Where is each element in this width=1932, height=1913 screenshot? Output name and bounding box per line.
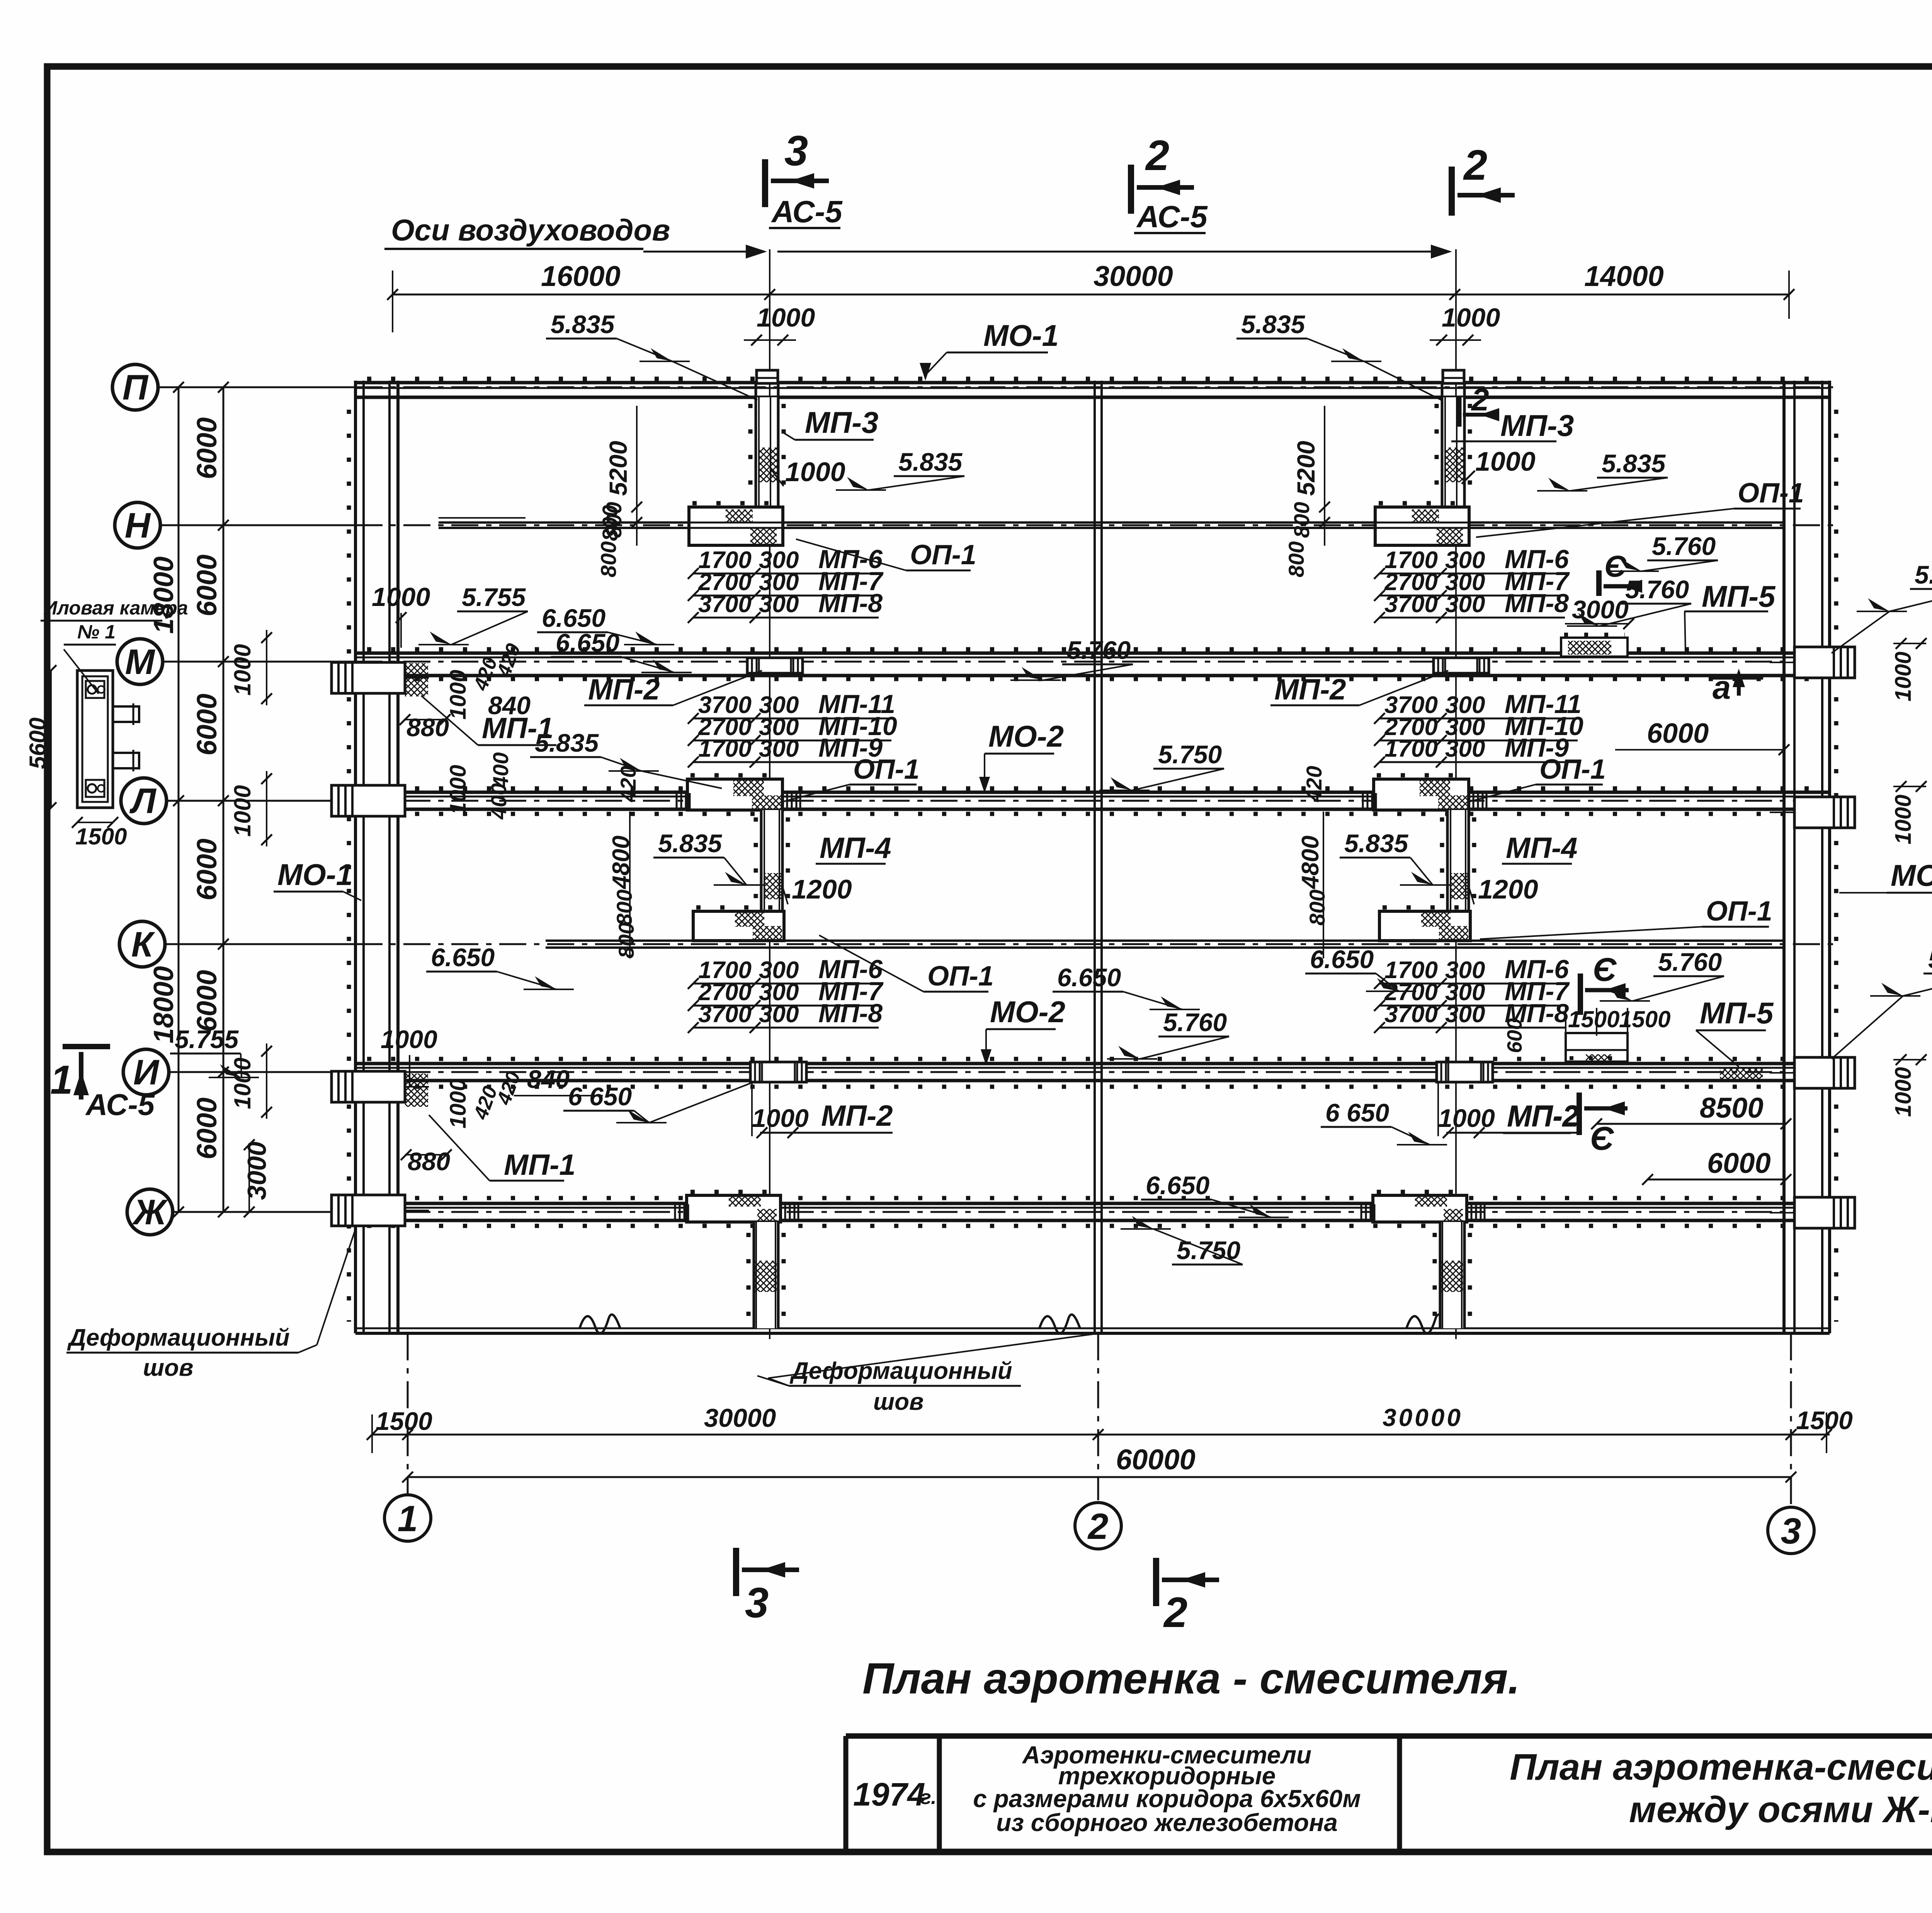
air duct axis line [1455,249,1457,1339]
svg-text:1000: 1000 [372,582,430,612]
svg-text:800: 800 [598,505,622,541]
wall band on axis П (МО-1 top wall) [355,381,1830,385]
svg-text:1000: 1000 [1475,446,1536,477]
air duct walls below П [756,397,778,507]
flange on И band [1437,1062,1493,1082]
svg-text:МП-2: МП-2 [588,673,660,706]
svg-text:Н: Н [125,506,151,545]
svg-text:1000: 1000 [752,1104,809,1132]
svg-text:6000: 6000 [192,970,223,1032]
svg-text:1500: 1500 [1796,1406,1853,1435]
svg-text:800: 800 [1289,502,1314,538]
svg-text:МО-1: МО-1 [1891,858,1932,892]
svg-text:И: И [133,1053,160,1092]
МП-4 duct below Л [1447,810,1469,911]
svg-text:300: 300 [1445,591,1485,618]
svg-text:1974: 1974 [853,1776,925,1813]
svg-text:5.755: 5.755 [175,1025,239,1054]
svg-text:МО-1: МО-1 [983,318,1059,352]
section mark а inside on М band [1713,675,1763,680]
svg-text:1000: 1000 [1891,652,1916,701]
svg-text:1500: 1500 [376,1407,432,1435]
svg-text:шов: шов [143,1355,193,1381]
axis line П [158,386,355,388]
runner beam on axis Н [439,521,1784,524]
axis line К [165,943,355,945]
svg-text:1000: 1000 [757,303,815,332]
svg-text:6000: 6000 [1707,1147,1771,1179]
svg-text:5.835: 5.835 [1241,310,1305,339]
svg-text:АС-5: АС-5 [1136,199,1208,234]
svg-text:МП-4: МП-4 [820,832,891,865]
air duct cap above П wall [757,370,778,383]
svg-text:1000: 1000 [381,1025,437,1054]
pipe stub in right wall at row Л [1794,797,1855,828]
svg-text:МП-2: МП-2 [1274,673,1346,706]
svg-text:5.650: 5.650 [1915,560,1932,589]
svg-text:ОП-1: ОП-1 [927,961,994,992]
svg-text:3: 3 [745,1579,769,1627]
flange on Ж band right of slab [1471,1204,1473,1220]
svg-text:300: 300 [759,591,799,618]
axis line of joint (to circle 2) [1097,1333,1099,1500]
svg-text:6000: 6000 [192,417,223,479]
top dimension line 16000/30000/14000 [393,294,1789,296]
wall band on axis Ж [355,1202,1830,1205]
svg-text:г.: г. [920,1786,937,1809]
wall band on axis И [355,1062,1830,1065]
svg-text:3: 3 [1781,1511,1801,1552]
МП-4 duct hatch [1450,873,1469,899]
svg-text:План аэротенка - смесителя.: План аэротенка - смесителя. [862,1654,1520,1703]
svg-text:5.760: 5.760 [1658,948,1722,976]
svg-text:Є: Є [1593,951,1617,988]
svg-text:6000: 6000 [192,839,223,900]
svg-text:800: 800 [612,890,636,926]
section mark 2/АС-5 top [1128,165,1134,214]
svg-text:5.835: 5.835 [898,448,963,476]
axis line М [163,661,355,663]
break symbol on bottom edge 2 [1039,1314,1080,1333]
svg-text:5.760: 5.760 [1163,1008,1227,1036]
air duct hatch block [1444,448,1464,482]
svg-text:К: К [131,925,155,964]
svg-text:ОП-1: ОП-1 [910,540,976,570]
svg-text:3000: 3000 [242,1142,272,1200]
section mark б И row upper [1578,974,1583,1015]
svg-text:МП-8: МП-8 [818,999,883,1028]
МП-2 flange on wall М [1434,658,1489,673]
sludge chamber dim 1500 [77,822,113,823]
section mark 2 inside plan at right duct [1457,397,1462,427]
svg-text:ОП-1: ОП-1 [1706,896,1772,927]
svg-text:5.760: 5.760 [1652,532,1716,560]
flange on Л right of slab [786,793,788,809]
right outer wall [1821,381,1823,1333]
svg-text:6.650: 6.650 [431,943,495,972]
svg-text:4800: 4800 [1297,836,1324,890]
axis circle К [119,921,165,967]
svg-text:6.650: 6.650 [1146,1171,1209,1200]
svg-text:а: а [1713,669,1731,706]
air duct dots [748,404,753,502]
air duct hatch block [758,448,778,482]
svg-text:План аэротенка-смесителя: План аэротенка-смесителя [1510,1746,1932,1788]
svg-text:АС-5: АС-5 [85,1088,155,1122]
svg-text:6.650: 6.650 [1057,963,1121,992]
svg-text:2: 2 [1463,141,1487,189]
svg-text:60000: 60000 [1116,1443,1196,1476]
break symbol on bottom edge 1 [580,1314,620,1333]
svg-text:5.755: 5.755 [462,583,526,611]
axis line И [169,1071,355,1073]
axis circle Л [121,778,167,824]
МП-4 duct below Л [761,810,782,911]
bottom axis circle 2 [1075,1503,1121,1549]
axis circle П [112,364,158,410]
svg-text:300: 300 [759,1001,799,1028]
bottom section mark 3 [733,1548,739,1596]
runner beam on axis К [546,939,1784,942]
svg-text:3700: 3700 [1384,1001,1438,1028]
small slab row М right [1561,638,1628,657]
svg-text:МП-8: МП-8 [1505,589,1569,618]
svg-text:1: 1 [398,1498,418,1539]
bottom dim line 60000 [408,1476,1791,1478]
svg-text:МП-2: МП-2 [1507,1100,1579,1133]
flange on Л left of slab [1362,793,1364,809]
bottom dim line 1500/30000/30000/1500 [372,1434,1830,1436]
svg-text:2: 2 [1471,382,1489,417]
svg-text:30000: 30000 [1383,1404,1463,1431]
flange on Ж band right of slab [784,1204,786,1220]
svg-text:МП-2: МП-2 [821,1099,893,1132]
dim chain 5200/800 left of left duct [636,406,638,546]
svg-text:6 650: 6 650 [1325,1098,1389,1127]
pipe stub in right wall at row Ж [1794,1197,1855,1228]
ОП-1 slab above Л [687,779,782,810]
svg-text:Л: Л [129,781,156,821]
svg-text:6.650: 6.650 [542,604,605,632]
svg-text:3: 3 [784,127,808,175]
svg-text:П: П [122,368,149,407]
svg-text:6.650: 6.650 [556,628,619,657]
flange on Ж band left of slab [674,1204,676,1220]
svg-text:6000: 6000 [192,694,223,756]
break symbol on bottom edge 3 [1406,1314,1447,1333]
sludge chamber ports [86,681,104,698]
small slab И row right (1500 1500) [1566,1033,1628,1062]
МП-2 flange on wall М [747,658,803,673]
left dim chain 18000 line [178,387,180,1212]
hatch in duct below Ж [755,1261,777,1292]
svg-text:Иловая камера: Иловая камера [43,597,188,619]
ОП-1 slab on axis Н [1375,507,1469,545]
section mark 3/АС-5 top [762,159,768,207]
axis circle М [117,639,163,684]
svg-text:840: 840 [527,1065,570,1093]
svg-text:1200: 1200 [792,874,852,904]
svg-text:840: 840 [488,691,531,720]
svg-text:5.835: 5.835 [658,829,722,858]
svg-text:1000: 1000 [446,670,471,720]
svg-text:14000: 14000 [1584,260,1664,292]
svg-text:МП-8: МП-8 [818,589,883,618]
bottom axis circle 3 [1768,1507,1814,1554]
svg-text:из сборного железобетона: из сборного железобетона [996,1809,1338,1836]
dim chain 4800 right column [1323,812,1324,958]
flange on Ж band left of slab [1361,1204,1362,1220]
runner bar Н left continuation [439,517,526,519]
svg-text:6000: 6000 [1647,718,1709,749]
wall band on axis М [355,652,1830,655]
svg-text:1700: 1700 [698,735,752,762]
svg-text:420: 420 [1302,766,1326,802]
svg-text:2: 2 [1163,1589,1187,1636]
section mark 1/АС-5 left [63,1044,110,1049]
sludge chamber dim 5600 [50,671,52,808]
svg-text:1000: 1000 [446,765,471,815]
axis line Ж [173,1211,355,1213]
svg-text:Ж: Ж [132,1193,168,1232]
svg-text:5.760: 5.760 [1067,636,1131,664]
svg-text:между осями Ж-П: между осями Ж-П [1629,1789,1932,1830]
svg-text:6.650: 6.650 [1310,945,1374,974]
svg-text:МП-1: МП-1 [504,1149,576,1181]
svg-text:1000: 1000 [1891,1067,1916,1117]
flange on Л right of slab [1473,793,1475,809]
duct below Ж [754,1222,778,1328]
svg-text:16000: 16000 [541,260,621,292]
svg-text:1000: 1000 [230,1058,255,1109]
svg-text:МП-3: МП-3 [1500,408,1574,443]
svg-text:1000: 1000 [785,457,845,487]
bottom axis circle 1 [384,1495,431,1541]
svg-text:Деформационный: Деформационный [67,1324,290,1351]
svg-text:800: 800 [1305,890,1329,926]
svg-text:№ 1: № 1 [77,621,116,643]
svg-text:5.835: 5.835 [551,310,615,339]
ОП-1 slab on axis Н [689,507,783,545]
ОП-1 slab above К [1379,911,1470,941]
tank bottom edge [355,1328,1830,1329]
svg-text:1000: 1000 [446,1079,471,1128]
pipe stub in left wall at row М [332,662,405,693]
dim chain 4800/800/420 left column [629,812,631,958]
pipe stub in right wall at row И [1794,1057,1855,1088]
svg-text:400: 400 [488,752,513,789]
svg-text:300: 300 [759,735,799,762]
svg-text:ОП-1: ОП-1 [853,754,920,785]
pipe stub in left wall at row И [332,1071,405,1102]
svg-text:300: 300 [1445,1001,1485,1028]
svg-text:1: 1 [50,1057,73,1103]
axis circle Ж [127,1189,173,1235]
svg-text:МП-5: МП-5 [1700,996,1774,1030]
svg-text:1200: 1200 [1478,874,1538,904]
svg-text:5200: 5200 [1292,441,1320,496]
svg-text:5.835: 5.835 [1602,449,1666,478]
svg-text:ОП-1: ОП-1 [1738,478,1804,509]
svg-text:300: 300 [1445,735,1485,762]
svg-text:800: 800 [1284,541,1308,577]
svg-text:6000: 6000 [192,1098,223,1159]
axis line Л [167,800,355,802]
svg-text:3700: 3700 [1384,591,1438,618]
section mark б И row lower [1577,1093,1582,1135]
pipe stub in left wall at row Л [332,785,405,816]
svg-text:5600: 5600 [25,718,51,769]
svg-text:3700: 3700 [698,1001,752,1028]
bottom axes verticals [407,1333,409,1494]
ОП-1 slab above К [693,911,784,941]
svg-text:2: 2 [1087,1506,1109,1547]
flange on Л left of slab [676,793,678,809]
svg-text:6 650: 6 650 [568,1082,632,1111]
wall band on axis Л [355,791,1830,794]
svg-text:800: 800 [614,922,638,958]
axis circle И [123,1049,169,1095]
right wall dots [1834,410,1838,1322]
svg-text:1500: 1500 [75,824,127,849]
svg-text:2: 2 [1145,132,1169,179]
air duct walls below П [1442,397,1464,507]
left outer wall [354,381,357,1333]
svg-text:МП-5: МП-5 [1702,579,1776,613]
hatch on И band right [1720,1068,1763,1081]
duct axes arrow line [643,251,762,253]
air duct axis line [769,249,770,1339]
pipe stub in left wall at row Ж [332,1195,405,1226]
svg-text:4800: 4800 [608,836,634,890]
pipe stub in right wall at row М [1794,647,1855,678]
section mark б upper [1596,570,1602,596]
hatch in duct below Ж [1441,1261,1463,1292]
flange on И band [750,1062,806,1082]
ОП-1 slab above Л [1374,779,1469,810]
svg-text:1700: 1700 [1384,735,1438,762]
Ж slab at duct [687,1195,781,1222]
svg-text:1000: 1000 [230,644,255,696]
title block outline [846,1733,1932,1739]
svg-text:30000: 30000 [1094,260,1173,292]
axis circle Н [115,502,160,548]
svg-text:5.835: 5.835 [1344,829,1408,858]
svg-text:1000: 1000 [230,785,255,837]
svg-text:МП-3: МП-3 [805,405,878,439]
left wall dots [347,410,351,1322]
hatch block inside left wall row М [405,663,428,696]
left inner wall [388,381,391,1333]
svg-text:880: 880 [408,1147,450,1176]
svg-text:3700: 3700 [698,591,752,618]
svg-text:Оси воздуховодов: Оси воздуховодов [391,213,670,247]
svg-text:5.650: 5.650 [1928,945,1932,974]
sludge chamber detail outer [77,671,113,808]
svg-text:18000: 18000 [148,557,179,634]
svg-text:1000: 1000 [1438,1104,1495,1132]
МП-4 duct hatch [764,873,782,899]
svg-text:5200: 5200 [604,441,632,496]
svg-text:880: 880 [406,713,449,742]
svg-text:МО-2: МО-2 [990,995,1065,1029]
right inner wall [1782,381,1786,1333]
dim chain 5200/800 right column [1324,406,1325,546]
sludge chamber pipes [113,706,139,722]
svg-text:МО-2: МО-2 [988,719,1064,753]
air duct dots [1435,404,1439,502]
svg-text:3000: 3000 [1572,595,1629,624]
middle deformation joint wall [1094,381,1096,1333]
axis line Н [160,524,355,526]
duct below Ж [1440,1222,1464,1328]
svg-text:6000: 6000 [192,555,223,616]
svg-text:1000: 1000 [1891,795,1916,844]
svg-text:800: 800 [596,541,621,577]
svg-text:8500: 8500 [1700,1092,1764,1124]
svg-text:МО-1: МО-1 [277,858,353,892]
svg-text:5.750: 5.750 [1158,740,1222,769]
svg-text:шов: шов [873,1389,923,1415]
svg-text:М: М [125,642,156,682]
svg-text:АС-5: АС-5 [771,194,843,229]
left dim chain 6000 line [223,387,224,1212]
svg-text:ОП-1: ОП-1 [1539,754,1606,785]
bottom section mark 2 [1153,1558,1159,1606]
svg-text:1500: 1500 [1568,1006,1619,1032]
air duct cap above П wall [1443,370,1464,383]
section mark 2 top right [1449,167,1455,216]
svg-text:30000: 30000 [704,1404,776,1433]
svg-text:600: 600 [1503,1018,1526,1053]
svg-text:1000: 1000 [1442,303,1500,332]
svg-text:Є: Є [1604,549,1627,583]
svg-text:МП-4: МП-4 [1506,832,1578,865]
hatch block inside left wall row И [405,1074,428,1107]
svg-text:5.835: 5.835 [535,728,599,757]
Ж slab at duct [1373,1195,1467,1222]
